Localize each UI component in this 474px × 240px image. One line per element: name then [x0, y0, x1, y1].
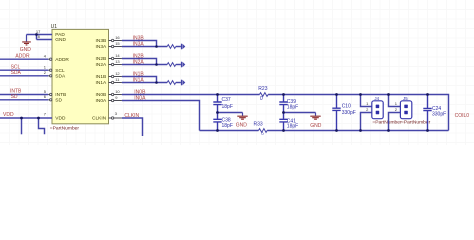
svg-text:SDA: SDA [55, 74, 66, 80]
wire VDD [0, 117, 52, 119]
resistor (IN3A series) [167, 45, 176, 49]
svg-text:GND: GND [20, 47, 32, 53]
wire bottom bus right [267, 130, 448, 132]
svg-text:INTB: INTB [55, 92, 66, 98]
pin bubble SDA [48, 75, 49, 77]
wire IN0A [122, 101, 200, 131]
svg-text:R33: R33 [254, 122, 263, 128]
IC U1 body [52, 29, 109, 123]
svg-text:10: 10 [115, 89, 120, 94]
pin bubble IN3A [109, 46, 112, 48]
svg-text:IN1B: IN1B [96, 74, 107, 80]
junction dot J5 top [387, 93, 390, 96]
junction dot J4 bottom [359, 129, 362, 132]
svg-text:IN1A: IN1A [96, 80, 107, 86]
ground GND (C37/C38) [237, 113, 247, 120]
svg-text:SDA: SDA [11, 70, 22, 76]
resistor (IN2A series) [167, 63, 176, 67]
svg-text:330pF: 330pF [432, 111, 446, 117]
wire SCL [0, 69, 48, 71]
resistor R23 [260, 93, 269, 97]
pin bubble IN3B [109, 40, 112, 42]
capacitor C39 [279, 95, 287, 113]
pin bubble ADDR [48, 58, 49, 60]
pin bubble CLKIN [109, 117, 112, 119]
svg-text:18pF: 18pF [287, 124, 298, 130]
off-sheet connector IN3A [182, 44, 186, 50]
svg-text:J4: J4 [374, 96, 379, 101]
connector J4 [361, 95, 384, 131]
svg-text:J5: J5 [403, 96, 408, 101]
svg-text:ADDR: ADDR [15, 53, 30, 59]
svg-text:18pF: 18pF [287, 104, 298, 110]
pin bubble INTB [48, 94, 49, 96]
junction dot pin17/8 tee [35, 33, 38, 36]
junction dot J5 bottom [387, 129, 390, 132]
svg-text:16: 16 [115, 35, 120, 40]
wire VDD stub 2 [39, 118, 45, 134]
wire INTB [0, 94, 48, 96]
pin bubble IN0A [109, 100, 112, 102]
wire pin17 PAD [27, 34, 53, 36]
svg-text:18pF: 18pF [222, 104, 233, 110]
svg-text:12: 12 [115, 71, 120, 76]
wire IN2A [122, 64, 167, 66]
svg-text:IN1A: IN1A [133, 77, 145, 83]
svg-text:IN2B: IN2B [96, 56, 107, 62]
junction dot J4 top [359, 93, 362, 96]
svg-text:VDD: VDD [3, 112, 14, 118]
wire ADDR [0, 58, 48, 60]
wire IN1B [122, 77, 157, 83]
svg-text:IN0B: IN0B [96, 92, 107, 98]
junction dot C10 top [335, 93, 338, 96]
svg-text:U1: U1 [51, 24, 58, 30]
svg-text:GND: GND [236, 123, 248, 129]
wire top bus (IN0B) [122, 94, 260, 96]
pin bubble SCL [48, 69, 49, 71]
wire IN1A [122, 82, 167, 84]
junction dot VDD stub2 [37, 117, 40, 120]
wire SDA [0, 75, 48, 77]
svg-text:IN2A: IN2A [96, 62, 107, 68]
capacitor C10 [332, 95, 340, 131]
junction dot IN3 join [155, 45, 158, 48]
svg-text:COIL0: COIL0 [455, 113, 470, 119]
junction dot C24 top [426, 93, 429, 96]
svg-text:C10: C10 [342, 103, 351, 109]
junction dot C38 bottom [216, 129, 219, 132]
svg-text:IN2A: IN2A [133, 59, 145, 65]
junction dot C24 bottom [426, 129, 429, 132]
svg-text:GND: GND [310, 123, 322, 129]
ground GND (C39/C41) [310, 113, 320, 120]
svg-text:SCL: SCL [55, 68, 65, 74]
svg-text:IN3B: IN3B [96, 38, 107, 44]
junction dot IN2 join [155, 63, 158, 66]
junction dot C39 top [282, 93, 285, 96]
pin bubble IN2B [109, 58, 112, 60]
resistor (IN1A series) [167, 81, 176, 85]
svg-text:0: 0 [260, 96, 263, 102]
wire IN2B [122, 59, 157, 65]
svg-text:SD: SD [11, 94, 18, 100]
svg-text:IN0A: IN0A [96, 98, 107, 104]
wire VDD stub 1 [21, 118, 23, 134]
capacitor C38 [213, 113, 221, 131]
junction dot C37/C38 mid [216, 111, 219, 114]
svg-text:CLKIN: CLKIN [124, 113, 139, 119]
svg-text:IN3A: IN3A [96, 44, 107, 50]
ground GND (U1 pad) [22, 35, 31, 45]
pin bubble IN1B [109, 76, 112, 78]
svg-text:R23: R23 [258, 86, 267, 92]
svg-text:=PartNumber: =PartNumber [50, 125, 80, 131]
pin bubble IN1A [109, 82, 112, 84]
capacitor C24 [423, 95, 431, 131]
junction dot VDD stub1 [20, 117, 23, 120]
wire bottom bus left [200, 130, 259, 132]
junction dot C10 bottom [335, 129, 338, 132]
svg-text:=PartNumber: =PartNumber [401, 119, 431, 125]
connector J5 [389, 95, 412, 131]
svg-text:15: 15 [115, 41, 120, 46]
junction dot C37 top [216, 93, 219, 96]
svg-text:14: 14 [115, 53, 120, 58]
wire SD [0, 99, 48, 101]
wire C37/C38 mid to GND [218, 112, 243, 114]
wire IN3B [122, 41, 157, 47]
capacitor C37 [213, 95, 221, 113]
junction dot IN1 join [155, 81, 158, 84]
svg-text:GND: GND [55, 37, 66, 43]
pin bubble SD [48, 99, 49, 101]
svg-text:13: 13 [115, 59, 120, 64]
wire pin8 GND [37, 35, 53, 40]
off-sheet connector IN2A [182, 62, 186, 68]
junction dot C39/C41 mid [282, 111, 285, 114]
junction dot C41 bottom [282, 129, 285, 132]
svg-text:330pF: 330pF [342, 110, 356, 116]
pin bubble IN2A [109, 64, 112, 66]
resistor R33 [259, 129, 268, 133]
capacitor C41 [279, 113, 287, 131]
svg-text:18pF: 18pF [222, 123, 233, 129]
off-sheet connector IN1A [182, 80, 186, 86]
svg-text:IN3A: IN3A [133, 41, 145, 47]
wire IN3A [122, 46, 167, 48]
svg-text:C37: C37 [222, 97, 231, 103]
wire top bus right [268, 95, 448, 131]
svg-text:ADDR: ADDR [55, 57, 69, 63]
wire CLKIN [122, 118, 143, 136]
svg-text:SD: SD [55, 98, 62, 104]
svg-text:VDD: VDD [55, 116, 66, 122]
svg-text:CLKIN: CLKIN [92, 116, 107, 122]
svg-text:=PartNumber: =PartNumber [372, 119, 402, 125]
wire C39/C41 mid to GND [284, 112, 316, 114]
pin bubble IN0B [109, 94, 112, 96]
